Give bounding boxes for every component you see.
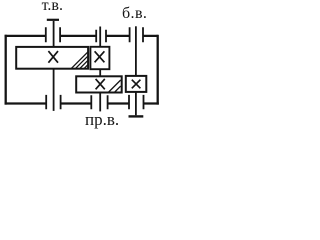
slow shaft end cap [47, 19, 59, 21]
intermediate shaft lower segment [99, 93, 101, 112]
hatch (stage-2 pinion section, in wheel rect) [71, 52, 88, 69]
intermediate shaft upper segment [99, 27, 101, 47]
fast shaft end cap [129, 115, 144, 117]
housing left wall [5, 35, 7, 105]
pinion rect (stage-1 wheel on intermediate shaft) [90, 47, 109, 69]
intermediate shaft middle segment [99, 69, 101, 76]
hatch (stage-1 pinion section, bottom block) [108, 80, 121, 93]
housing right wall [157, 35, 159, 105]
gear rect (stage-2 pinion block on intermediate shaft) [76, 76, 122, 92]
bearing B2 (intermediate shaft, top wall) [96, 30, 106, 42]
fast shaft lower segment [135, 92, 137, 115]
gear cross X4 (fast shaft) [132, 80, 141, 89]
slow shaft lower segment [53, 69, 55, 111]
gear cross X3 (intermediate shaft, bottom block) [96, 79, 105, 89]
fast shaft upper segment [135, 26, 137, 76]
label fast shaft [122, 5, 147, 23]
label intermediate shaft [85, 110, 119, 130]
bearing B4 (slow shaft, bottom wall) [46, 95, 60, 109]
housing bottom wall [5, 102, 159, 104]
gear wheel rect (stage-2 wheel on slow shaft) [16, 47, 88, 69]
bearing B6 (fast shaft, bottom wall) [129, 95, 144, 109]
label slow shaft [42, 0, 63, 15]
housing top wall [5, 35, 158, 37]
gear rect (stage-1 pinion on fast shaft) [126, 76, 147, 92]
gear cross X1 (wheel / slow shaft) [48, 51, 58, 63]
slow shaft upper segment [53, 21, 55, 47]
bearing B5 (intermediate shaft, bottom wall) [91, 95, 107, 109]
bearing B1 (slow shaft, top wall) [46, 27, 60, 42]
gear cross X2 (intermediate shaft, top block) [95, 51, 105, 62]
bearing B3 (fast shaft, top wall) [130, 27, 143, 42]
